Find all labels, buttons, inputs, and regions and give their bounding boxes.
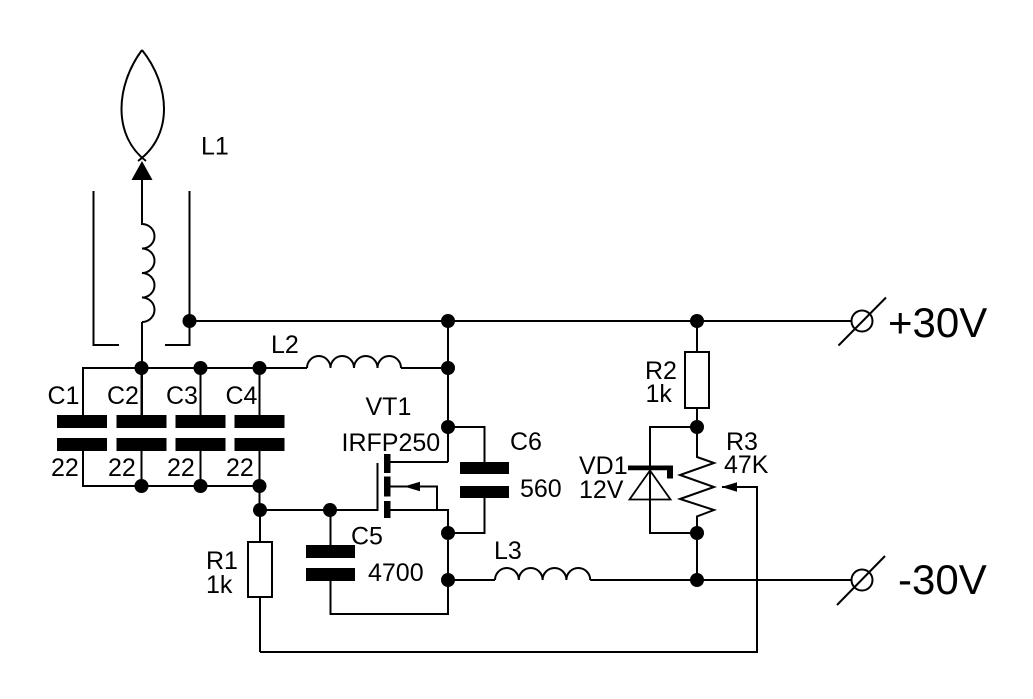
node dot source-L3 — [441, 573, 455, 587]
capacitor C6 top branch — [448, 427, 485, 462]
svg-text:L3: L3 — [494, 537, 522, 565]
node dot source-C6 — [441, 526, 455, 540]
capacitor C4 stub bottom — [259, 451, 261, 486]
resistor R1 leads — [259, 510, 261, 542]
transistor VT1 drain wire — [389, 461, 448, 463]
node dot botbus-C4 — [253, 479, 267, 493]
svg-text:-30V: -30V — [898, 556, 987, 603]
svg-text:C1: C1 — [48, 382, 80, 410]
svg-text:47K: 47K — [724, 451, 769, 479]
screen bracket right — [165, 191, 190, 345]
capacitor C2 stub top — [141, 368, 143, 415]
node dot bus-C2 — [135, 361, 149, 375]
+30V rail wire — [190, 320, 852, 322]
resistor R2 bottom lead — [696, 408, 698, 427]
svg-text:IRFP250: IRFP250 — [342, 429, 441, 457]
svg-text:L1: L1 — [201, 133, 229, 161]
node dot botbus-C3 — [194, 479, 208, 493]
arrow into lamp — [132, 161, 153, 180]
node dot bus-C4 — [253, 361, 267, 375]
node dot rail-bracket — [183, 314, 197, 328]
capacitor C4 plates — [235, 415, 285, 451]
svg-text:560: 560 — [520, 475, 562, 503]
wire arrow to coil — [141, 180, 143, 225]
resistor R2 top lead — [696, 321, 698, 352]
capacitor C4 stub top — [259, 368, 261, 415]
R3 wiper arrow — [722, 482, 738, 491]
potentiometer R3 zigzag — [680, 427, 714, 533]
svg-text:C4: C4 — [226, 382, 258, 410]
-30V rail wire — [590, 579, 851, 581]
resistor R1 bottom lead — [259, 597, 261, 652]
wire bottom bus to gate node — [260, 486, 378, 510]
lamp L1 bulb — [122, 50, 165, 161]
transistor VT1 body arrow — [404, 482, 420, 491]
capacitor C1 plates — [57, 415, 107, 451]
inductor L1 coil — [142, 224, 155, 322]
capacitor C5 stub — [330, 510, 332, 545]
svg-text:12V: 12V — [579, 476, 624, 504]
diode VD1 branch wire — [650, 427, 697, 533]
svg-text:22: 22 — [108, 454, 136, 482]
svg-text:VT1: VT1 — [366, 393, 412, 421]
svg-text:+30V: +30V — [888, 299, 987, 346]
svg-text:C6: C6 — [510, 428, 542, 456]
node dot L2-x448 — [441, 361, 455, 375]
svg-text:22: 22 — [51, 454, 79, 482]
capacitor C2 plates — [117, 415, 167, 451]
svg-text:4700: 4700 — [368, 559, 424, 587]
bottom feedback loop wire — [260, 487, 757, 652]
transistor VT1 gate electrode — [377, 463, 379, 511]
node dot rail30-R3 — [690, 573, 704, 587]
inductor L3 coil — [495, 568, 590, 580]
capacitor C5 plates — [306, 545, 355, 581]
capacitor C6 bottom branch — [448, 498, 485, 533]
svg-text:1k: 1k — [646, 380, 673, 408]
transistor VT1 body wire — [389, 487, 437, 511]
node dot drain-C6 — [441, 420, 455, 434]
cap bottom bus with C1 stub — [83, 451, 260, 486]
node dot R3-VD1 — [690, 526, 704, 540]
capacitor C3 stub top — [200, 368, 202, 415]
resistor R2 body — [685, 352, 709, 408]
transistor VT1 source wire and C5 bottom loop — [331, 510, 449, 614]
screen bracket left — [94, 191, 120, 345]
wire L2 to vertical — [401, 367, 448, 369]
transistor VT1 channel bars — [384, 454, 391, 518]
cap top bus with C1 stub — [83, 368, 307, 415]
svg-text:C2: C2 — [107, 382, 139, 410]
svg-text:22: 22 — [167, 454, 195, 482]
node dot R2-R3 — [690, 420, 704, 434]
diode VD1 cathode bar — [628, 466, 673, 479]
diode VD1 triangle — [630, 471, 671, 500]
terminal -30V — [837, 556, 885, 605]
resistor R1 body — [248, 542, 272, 597]
inductor L3 wire left — [448, 579, 495, 581]
terminal +30V — [839, 298, 887, 346]
wire coil to top bus — [141, 322, 143, 415]
svg-text:C3: C3 — [166, 382, 198, 410]
wire R3 bottom to -30V rail — [696, 533, 698, 580]
main vertical wire upper — [447, 321, 449, 462]
svg-text:L2: L2 — [271, 331, 299, 359]
svg-text:1k: 1k — [206, 571, 233, 599]
capacitor C3 plates — [176, 415, 226, 451]
inductor L2 coil — [307, 356, 401, 368]
node dot gate-R1 — [253, 503, 267, 517]
node dot botbus-C2 — [135, 479, 149, 493]
node dot rail-R2 — [690, 314, 704, 328]
capacitor C2 stub bottom — [141, 451, 143, 486]
node dot bus-C3 — [194, 361, 208, 375]
node dot gate-C5 — [323, 503, 337, 517]
node dot rail-x448 — [441, 314, 455, 328]
svg-text:C5: C5 — [351, 523, 383, 551]
capacitor C3 stub bottom — [200, 451, 202, 486]
svg-text:22: 22 — [226, 454, 254, 482]
capacitor C6 plates — [460, 462, 509, 498]
